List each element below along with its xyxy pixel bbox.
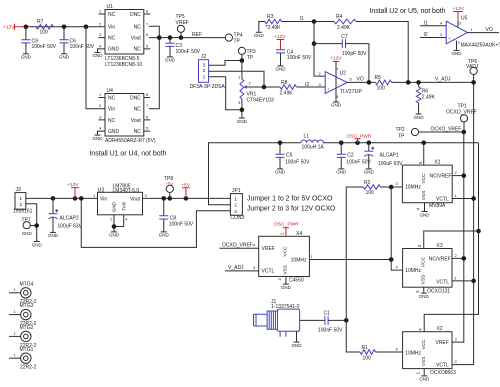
- svg-text:VREF: VREF: [176, 20, 189, 26]
- svg-text:2.49K: 2.49K: [280, 91, 294, 97]
- svg-text:GND: GND: [112, 201, 117, 212]
- mounting hole MTG4: [9, 281, 37, 305]
- svg-text:R5: R5: [375, 75, 382, 81]
- svg-text:1: 1: [14, 309, 17, 314]
- svg-text:DF3A-3P-2DSA: DF3A-3P-2DSA: [190, 84, 226, 90]
- svg-text:4: 4: [416, 208, 421, 211]
- svg-text:+12V: +12V: [274, 34, 286, 40]
- power +12V (C4): [274, 34, 286, 50]
- wire X1 node down to X4 output and X3 pin4: [391, 187, 402, 270]
- svg-text:6: 6: [350, 77, 353, 82]
- svg-text:GND: GND: [414, 115, 425, 120]
- test point TP1: [446, 103, 477, 132]
- svg-text:R2: R2: [364, 180, 371, 186]
- wire REF line U1 Vout to TP4: [149, 37, 226, 39]
- power +12V (top-left): [3, 24, 26, 31]
- svg-text:V_ADJ: V_ADJ: [228, 265, 244, 271]
- svg-text:3: 3: [455, 337, 458, 342]
- svg-text:MTG3: MTG3: [20, 303, 34, 309]
- svg-text:4: 4: [125, 217, 128, 222]
- svg-text:2: 2: [19, 202, 22, 208]
- wire V_ADJ vertical bus: [452, 82, 474, 364]
- svg-text:3: 3: [234, 209, 237, 215]
- svg-text:5: 5: [418, 161, 423, 164]
- net label V_ADJ with wire to X4 VCTL pin3: [225, 265, 259, 271]
- wire U2 output: [347, 81, 375, 83]
- svg-text:10MHz: 10MHz: [291, 257, 307, 263]
- ground (X2): [419, 376, 430, 382]
- svg-text:100nF 50V: 100nF 50V: [70, 44, 95, 50]
- mounting hole MTG3: [9, 303, 37, 327]
- svg-text:U1: U1: [107, 4, 114, 10]
- svg-text:4: 4: [99, 43, 102, 48]
- resistor R8: [280, 80, 297, 97]
- ground (U2): [331, 102, 342, 108]
- wire +5V rail U3 Vout to CON3 pin1: [143, 197, 231, 199]
- wire TP2 to OCXO_VREF vertical: [418, 131, 464, 133]
- svg-text:1: 1: [311, 254, 314, 259]
- svg-text:VCTL: VCTL: [436, 362, 449, 368]
- svg-text:GND: GND: [419, 294, 430, 299]
- wire X1 pin3 stub: [391, 181, 402, 187]
- node junction OSC_PWR rail at C5: [278, 140, 283, 145]
- svg-text:OCXO131: OCXO131: [427, 288, 450, 294]
- svg-text:1: 1: [415, 371, 420, 374]
- svg-text:8: 8: [146, 92, 149, 97]
- svg-text:Vout: Vout: [130, 196, 141, 202]
- svg-text:MV89A: MV89A: [429, 203, 446, 209]
- node junction OSC_PWR rail at flag: [355, 140, 360, 145]
- power flag OSC_PWR (rail): [347, 133, 372, 142]
- ground (U3): [109, 232, 120, 238]
- svg-text:J2: J2: [201, 54, 207, 60]
- svg-text:1: 1: [238, 74, 241, 79]
- svg-text:3: 3: [99, 114, 102, 119]
- svg-text:JP1: JP1: [232, 188, 241, 194]
- svg-text:I1: I1: [300, 16, 304, 22]
- test point TP4: [225, 33, 243, 45]
- svg-text:Install U2 or U5, not both: Install U2 or U5, not both: [370, 8, 446, 15]
- svg-text:100nF 50V: 100nF 50V: [32, 44, 57, 50]
- ground (C8): [159, 232, 170, 238]
- svg-text:U4: U4: [107, 88, 114, 94]
- node junction +5V rail at +5V flag: [184, 196, 189, 201]
- svg-text:GND: GND: [48, 233, 59, 238]
- svg-text:C5: C5: [286, 153, 293, 159]
- svg-text:NC: NC: [134, 129, 142, 135]
- svg-text:Vout: Vout: [131, 118, 142, 124]
- svg-text:NC: NC: [134, 107, 142, 113]
- svg-text:100nF 50V: 100nF 50V: [318, 327, 343, 333]
- svg-text:4: 4: [253, 242, 256, 247]
- pin 6 / net label VO: [350, 77, 364, 83]
- svg-text:+: +: [448, 36, 451, 41]
- node junction on +12V rail at C9: [24, 25, 29, 30]
- svg-text:DNC: DNC: [130, 12, 141, 18]
- svg-text:4: 4: [440, 20, 443, 25]
- oscillator X3 OCXO131: [403, 243, 452, 294]
- svg-text:X4: X4: [296, 231, 302, 237]
- svg-text:1: 1: [19, 196, 22, 202]
- svg-text:GND: GND: [159, 233, 170, 238]
- svg-text:100nF 50V: 100nF 50V: [287, 55, 312, 61]
- node junction C1/R2/R1: [344, 318, 349, 323]
- inductor L1 100uH 1A: [301, 134, 325, 151]
- test point TP6: [466, 59, 479, 83]
- node junction rail at +12V flag: [73, 196, 78, 201]
- svg-text:2: 2: [99, 103, 102, 108]
- svg-text:2.49K: 2.49K: [337, 25, 351, 31]
- ground (R6): [414, 114, 425, 120]
- svg-text:100uF 63V: 100uF 63V: [58, 223, 83, 229]
- svg-text:3: 3: [99, 32, 102, 37]
- svg-text:4: 4: [99, 126, 102, 131]
- node junction I1: [312, 19, 317, 24]
- svg-text:GND: GND: [237, 119, 248, 124]
- resistor R6: [416, 82, 435, 113]
- wire R8 to U2 pin3: [297, 86, 326, 88]
- svg-text:GND: GND: [165, 58, 176, 63]
- capacitor ALCAP2 (electrolytic): [49, 198, 83, 232]
- svg-text:100uH 1A: 100uH 1A: [302, 144, 325, 150]
- svg-text:1: 1: [471, 27, 474, 32]
- svg-text:-: -: [328, 75, 330, 80]
- ground (C4): [276, 66, 287, 72]
- capacitor C5: [276, 143, 311, 169]
- wire X4 VSS to ground: [285, 277, 287, 284]
- connector J1 1-1337541-0 (BNC): [254, 299, 300, 337]
- ground (U1 pin4): [93, 52, 104, 58]
- svg-text:100nF 50V: 100nF 50V: [169, 221, 194, 227]
- svg-text:1: 1: [99, 92, 102, 97]
- svg-text:GND: GND: [108, 129, 120, 135]
- wire R3 to I1 node to R4: [282, 21, 335, 23]
- svg-text:VREF: VREF: [262, 246, 275, 252]
- svg-text:C1: C1: [324, 310, 331, 316]
- node junction TP3/VR1 top: [240, 58, 245, 63]
- svg-text:3: 3: [440, 32, 443, 37]
- capacitor C4: [276, 49, 312, 65]
- svg-text:1: 1: [234, 197, 237, 203]
- wire C1 to R2/R1 node: [328, 319, 346, 321]
- wire C7 right to VO node: [346, 44, 369, 83]
- svg-text:I2: I2: [424, 32, 428, 38]
- svg-text:2: 2: [203, 68, 206, 74]
- svg-text:2: 2: [277, 278, 282, 281]
- svg-text:VSS: VSS: [421, 357, 427, 367]
- capacitor C2: [337, 143, 372, 169]
- svg-text:MTG2: MTG2: [20, 325, 34, 331]
- svg-text:GND: GND: [22, 231, 33, 236]
- wire R3 left to ground: [259, 22, 265, 32]
- svg-text:C4550: C4550: [289, 277, 304, 283]
- node junction C7 branch: [312, 41, 317, 46]
- node junction X1 pin1: [471, 196, 476, 201]
- svg-text:22R2-2: 22R2-2: [20, 365, 37, 371]
- svg-text:7: 7: [146, 21, 149, 26]
- node junction OSC_PWR rail at C2: [339, 140, 344, 145]
- ground (C3): [165, 57, 176, 63]
- capacitor ALCAP1 (electrolytic): [364, 143, 403, 169]
- regulator U3 LM7805 / LM340T-5.0: [93, 183, 148, 215]
- resistor R7: [36, 19, 54, 36]
- svg-text:5: 5: [396, 347, 399, 352]
- node junction R4 at V_ADJ: [406, 80, 411, 85]
- svg-text:1: 1: [14, 287, 17, 292]
- node junction R6 at V_ADJ: [416, 80, 421, 85]
- capacitor C1: [318, 310, 343, 333]
- resistor R4: [334, 14, 356, 31]
- svg-text:GND: GND: [336, 170, 347, 175]
- svg-text:2.49K: 2.49K: [422, 94, 436, 100]
- svg-text:3: 3: [203, 63, 206, 69]
- resistor R3: [265, 14, 282, 31]
- svg-text:2: 2: [99, 21, 102, 26]
- test point TP8: [164, 176, 173, 198]
- svg-text:NC: NC: [134, 25, 142, 31]
- ground (ALCAP2): [48, 232, 59, 238]
- svg-text:2: 2: [249, 81, 252, 86]
- svg-text:+12V: +12V: [330, 55, 342, 61]
- svg-text:X2: X2: [437, 326, 443, 332]
- svg-text:4: 4: [396, 265, 399, 270]
- wire U5 supply pins: [457, 21, 459, 50]
- svg-text:VSS: VSS: [282, 265, 288, 275]
- node junction X3 pin2: [462, 256, 467, 261]
- svg-text:GND: GND: [452, 51, 463, 56]
- svg-text:ADR4550ARZ-R7 (5V): ADR4550ARZ-R7 (5V): [105, 138, 156, 144]
- node junction +5V rail at TP8: [168, 196, 173, 201]
- wire U4 GND pin to ground: [98, 131, 106, 135]
- svg-text:DNC: DNC: [130, 96, 141, 102]
- svg-text:OCXO_VREF: OCXO_VREF: [446, 109, 477, 115]
- net label OCXO_VREF with wire to X4 VREF pin4: [220, 242, 259, 248]
- node junction C7 feedback at VO: [367, 80, 372, 85]
- svg-text:1: 1: [14, 331, 17, 336]
- svg-text:OSC_PWR: OSC_PWR: [274, 222, 299, 228]
- svg-text:100: 100: [366, 190, 375, 196]
- wire X3 VCC pin3 to OSC_PWR bus: [424, 231, 479, 249]
- svg-text:MTG4: MTG4: [20, 281, 34, 287]
- svg-text:GND: GND: [281, 285, 292, 290]
- svg-text:100: 100: [363, 356, 372, 362]
- svg-text:VCC: VCC: [421, 339, 427, 350]
- svg-text:X1: X1: [435, 160, 441, 166]
- wire U3 GND+TAB pins to ground: [110, 215, 128, 232]
- op-amp U2 TLV271IP: [319, 66, 363, 99]
- svg-text:J3: J3: [16, 187, 22, 193]
- node junction X4 output: [389, 257, 394, 262]
- svg-text:3: 3: [319, 82, 322, 87]
- svg-text:CON3: CON3: [230, 215, 244, 221]
- svg-text:R4: R4: [336, 14, 343, 20]
- wire U5 output VO: [468, 32, 500, 34]
- node junction X1 pin2: [462, 173, 467, 178]
- wire R1 to X2 10MHz pin5: [376, 347, 403, 353]
- wire OSC_PWR from CON3 pin2: [209, 143, 479, 205]
- svg-text:+12V: +12V: [3, 25, 15, 31]
- node junction TP6 / V_ADJ vertical: [471, 80, 476, 85]
- node junction R2 / X1 10MHz: [389, 185, 394, 190]
- node junction VR1 wiper / J2 pin2: [262, 85, 267, 90]
- svg-text:1: 1: [455, 275, 458, 280]
- node junction X3 pin1: [471, 279, 476, 284]
- svg-text:1935161: 1935161: [13, 208, 33, 214]
- wire J3 pin2 to ground: [26, 204, 37, 241]
- svg-text:ALCAP2: ALCAP2: [60, 215, 79, 221]
- svg-text:OCXO_VREF: OCXO_VREF: [431, 127, 462, 133]
- svg-text:4: 4: [417, 328, 422, 331]
- svg-text:10MHz: 10MHz: [405, 185, 421, 191]
- svg-text:Jumper 1 to 2 for 5V OCXO: Jumper 1 to 2 for 5V OCXO: [247, 196, 333, 203]
- svg-text:*2.49K: *2.49K: [266, 25, 282, 31]
- svg-text:U2: U2: [340, 71, 347, 77]
- svg-text:OCXO_VREF: OCXO_VREF: [222, 242, 253, 248]
- svg-text:CT94EY103: CT94EY103: [247, 98, 274, 104]
- wire X3 NC/VREF pin2 to OCXO_VREF bus: [452, 253, 464, 259]
- svg-text:1: 1: [14, 352, 17, 357]
- svg-text:Jumper 2 to 3 for 12V OCXO: Jumper 2 to 3 for 12V OCXO: [247, 206, 336, 213]
- pin labels X2 VREF 3 / VCTL 2: [455, 337, 458, 365]
- svg-text:3: 3: [396, 181, 399, 186]
- ground (VR1): [237, 118, 248, 124]
- wire R2 left leg (vertical): [346, 187, 363, 320]
- ground (U5): [452, 50, 463, 56]
- ground (R3): [254, 32, 265, 38]
- wire C7 left lead: [314, 43, 342, 45]
- svg-text:GND: GND: [275, 170, 286, 175]
- svg-text:+: +: [372, 146, 375, 151]
- net label I2 (U5): [424, 32, 444, 38]
- svg-text:C2: C2: [347, 153, 354, 159]
- wire VR1 bottom to ground node: [241, 99, 243, 118]
- svg-text:+: +: [56, 208, 59, 213]
- wire U1 GND pin to ground: [98, 49, 106, 52]
- svg-text:Vout: Vout: [131, 35, 142, 41]
- svg-text:I1: I1: [424, 20, 428, 26]
- svg-text:100nF 50V: 100nF 50V: [346, 160, 371, 166]
- svg-text:VADJ: VADJ: [466, 64, 479, 70]
- svg-text:MTG1: MTG1: [20, 347, 34, 353]
- test point TP7: [22, 218, 37, 236]
- connector J3 1935161: [13, 187, 33, 215]
- oscillator X2 OCXO8663: [403, 326, 456, 376]
- svg-text:VCTL: VCTL: [262, 269, 275, 275]
- power +12V (U5): [453, 6, 465, 21]
- wire U2 supply pins: [335, 61, 337, 101]
- wire X1 VCC pin5 to OSC_PWR rail: [423, 143, 425, 165]
- ground (C6): [59, 54, 70, 60]
- svg-text:GND: GND: [331, 103, 342, 108]
- node junction REF at C3: [168, 35, 173, 40]
- svg-text:1: 1: [455, 193, 458, 198]
- svg-text:10MHz: 10MHz: [405, 268, 421, 274]
- svg-text:10MHz: 10MHz: [405, 351, 421, 357]
- wire TP3 node down to VR1: [241, 61, 243, 80]
- resistor R2: [363, 180, 380, 196]
- svg-text:VSS: VSS: [421, 275, 427, 285]
- op-amp / IC U4 ADR4550: [99, 88, 156, 144]
- svg-text:REF: REF: [192, 32, 202, 38]
- capacitor C6: [60, 27, 95, 54]
- svg-text:8: 8: [146, 9, 149, 14]
- svg-text:Install U1 or U4, not both: Install U1 or U4, not both: [90, 150, 167, 157]
- svg-text:GND: GND: [93, 136, 104, 141]
- connector J2 DF3A-3P-2DSA: [190, 54, 226, 90]
- svg-text:OCXO8663: OCXO8663: [430, 370, 456, 376]
- svg-text:Vin: Vin: [108, 107, 115, 113]
- wire J2 pin1 to ground node: [209, 77, 242, 110]
- svg-text:VCTL: VCTL: [436, 196, 449, 202]
- mounting hole MTG2: [9, 325, 37, 349]
- svg-text:7: 7: [146, 103, 149, 108]
- svg-text:U5: U5: [461, 15, 468, 21]
- svg-text:1: 1: [99, 9, 102, 14]
- svg-text:GND: GND: [21, 55, 32, 60]
- node junction on +12V rail at U4 branch: [84, 25, 89, 30]
- svg-text:3: 3: [145, 193, 148, 198]
- ground (U4 pin4): [93, 135, 104, 141]
- svg-text:TP: TP: [247, 55, 254, 61]
- svg-text:+5V: +5V: [166, 182, 174, 187]
- wire J1 center pin to C1: [300, 319, 325, 321]
- svg-text:NC/VREF: NC/VREF: [430, 173, 452, 179]
- capacitor C3: [166, 38, 201, 57]
- svg-text:VO: VO: [486, 27, 493, 33]
- svg-text:2: 2: [455, 170, 458, 175]
- svg-text:Vin: Vin: [108, 25, 115, 31]
- svg-text:GND: GND: [276, 67, 287, 72]
- node junction X3 VCC at OSC_PWR bus: [476, 229, 481, 234]
- svg-text:GND: GND: [108, 47, 120, 53]
- svg-text:C7: C7: [341, 34, 348, 40]
- svg-text:VCTL: VCTL: [436, 280, 449, 286]
- svg-text:VREF: VREF: [435, 340, 448, 346]
- svg-text:GND: GND: [109, 233, 120, 238]
- wire +12V rail to U1 Vin: [26, 26, 105, 28]
- net label I1 (U5): [424, 20, 444, 26]
- power +12V (U2): [330, 55, 342, 61]
- svg-text:100nF 50V: 100nF 50V: [176, 49, 201, 55]
- svg-text:GND: GND: [292, 343, 303, 348]
- svg-text:GND: GND: [364, 170, 375, 175]
- wire X3 VSS to ground: [423, 287, 425, 292]
- svg-text:VCC: VCC: [421, 173, 427, 184]
- wire node down to R1: [346, 320, 360, 352]
- ground (C2): [336, 169, 347, 175]
- svg-text:3: 3: [253, 265, 256, 270]
- svg-text:R1: R1: [362, 345, 369, 351]
- ground (C9): [21, 54, 32, 60]
- node junction on +12V rail at C6: [62, 25, 67, 30]
- svg-text:+12V: +12V: [453, 6, 465, 12]
- svg-text:LT1236BCN8-10: LT1236BCN8-10: [105, 62, 142, 68]
- svg-text:LM340T-5.0: LM340T-5.0: [113, 188, 140, 194]
- pin 1 / net label VO (U5): [471, 27, 493, 33]
- node junction +5V rail at C8: [161, 196, 166, 201]
- svg-text:4: 4: [336, 94, 339, 99]
- wire +12V leg to CON3 pin3: [81, 198, 230, 247]
- svg-text:VSS: VSS: [421, 191, 427, 201]
- wire X1 VCTL pin1 to V_ADJ bus: [452, 193, 473, 199]
- svg-text:1: 1: [93, 193, 96, 198]
- power +5V: [181, 182, 191, 198]
- svg-text:100nF 50V: 100nF 50V: [285, 160, 310, 166]
- wire VR1 wiper to R8: [248, 86, 280, 88]
- wire X1 NC/VREF pin2 to OCXO_VREF bus: [452, 170, 464, 176]
- wire R2 right to X1 pin3 node: [380, 186, 402, 188]
- capacitor C9: [21, 27, 56, 54]
